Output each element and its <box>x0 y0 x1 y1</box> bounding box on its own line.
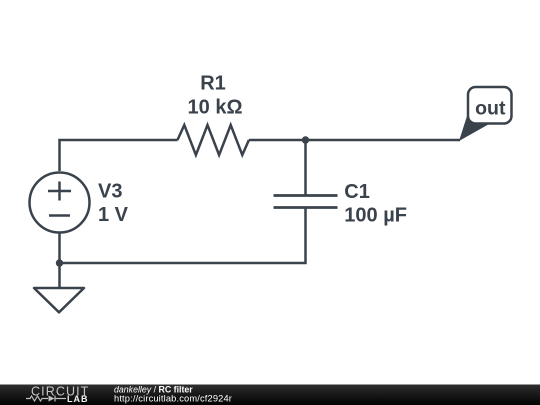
wire source bottom to ground <box>58 233 61 288</box>
out flag tail <box>459 115 490 142</box>
svg-text:100 µF: 100 µF <box>344 204 407 226</box>
resistor R1 <box>178 125 249 155</box>
svg-text:C1: C1 <box>344 181 370 203</box>
voltage source V3 circle <box>30 173 90 233</box>
ground <box>34 288 84 312</box>
wire top-left corner from source to resistor <box>60 140 178 171</box>
logo zigzag and diode <box>26 396 66 402</box>
footer bar <box>0 385 540 405</box>
node junction bottom <box>56 259 63 266</box>
wire resistor to out node <box>249 139 460 142</box>
svg-text:V3: V3 <box>98 181 122 203</box>
svg-text:out: out <box>475 98 506 120</box>
svg-text:R1: R1 <box>200 73 226 95</box>
svg-text:1 V: 1 V <box>98 204 129 226</box>
node junction top <box>302 136 309 143</box>
minus sign <box>49 214 70 217</box>
svg-text:10 kΩ: 10 kΩ <box>188 97 243 119</box>
wire capacitor down and left to bottom junction <box>60 208 306 264</box>
out flag box <box>468 87 512 124</box>
svg-text:http://circuitlab.com/cf2924r: http://circuitlab.com/cf2924r <box>114 393 232 403</box>
svg-text:LAB: LAB <box>67 394 89 404</box>
wire top junction to capacitor <box>304 140 307 196</box>
capacitor C1 bottom plate <box>274 206 338 209</box>
capacitor C1 top plate <box>274 194 338 197</box>
plus sign <box>48 190 71 193</box>
